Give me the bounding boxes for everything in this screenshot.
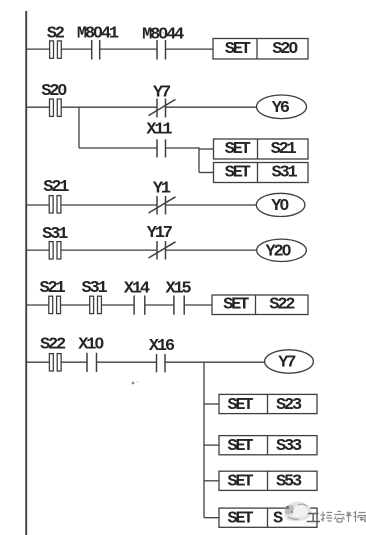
svg-text:X14: X14	[124, 280, 150, 299]
svg-text:SET: SET	[223, 296, 249, 315]
svg-text:Y1: Y1	[153, 180, 171, 199]
contact S21	[49, 196, 61, 213]
contact X14	[134, 296, 145, 315]
wire rung2 rail to S20	[26, 106, 50, 108]
wire M8044 to SET S20 box	[166, 48, 213, 50]
svg-text:SET: SET	[225, 163, 251, 182]
wire X14 to X15	[145, 304, 173, 306]
wire stub to SET S33	[204, 444, 219, 446]
branch wire down from rung2	[78, 107, 80, 148]
wire X11 to tee	[166, 147, 199, 149]
svg-text:S31: S31	[271, 163, 297, 182]
wire Y17 to coil Y20	[166, 249, 257, 251]
svg-text:S21: S21	[39, 279, 65, 298]
wire S20 to Y7 contact with branch node	[61, 106, 156, 108]
SET S21 instruction box	[214, 139, 309, 159]
svg-text:Y0: Y0	[271, 197, 289, 216]
SET S22 instruction box	[212, 295, 308, 315]
wire S21 to S31	[61, 304, 90, 306]
watermark icon	[285, 502, 312, 522]
contact X16	[157, 354, 166, 372]
wire stub to SET S63	[204, 517, 219, 519]
contact M8044	[157, 40, 166, 60]
contact X15	[174, 296, 184, 315]
svg-text:Y7: Y7	[278, 354, 296, 373]
svg-text:S2: S2	[47, 25, 65, 44]
svg-text:S53: S53	[276, 473, 302, 492]
coil Y0	[256, 193, 305, 216]
svg-text:X15: X15	[165, 280, 191, 299]
wire M8041 to M8044	[100, 48, 156, 50]
left power rail	[25, 11, 27, 535]
wire tee to SET S31	[199, 172, 214, 174]
wire S31 to X14	[101, 304, 133, 306]
contact X10	[87, 353, 97, 372]
svg-text:S20: S20	[41, 82, 67, 101]
wire Y7 to coil Y6	[166, 106, 257, 108]
svg-text:S21: S21	[43, 178, 69, 197]
contact Y1 normally closed	[149, 196, 176, 215]
contact Y17 normally closed	[149, 241, 176, 260]
SET S53 instruction box	[219, 471, 317, 492]
wire rung5 rail to S21	[26, 304, 49, 306]
svg-text:SET: SET	[225, 40, 251, 59]
contact S22	[49, 354, 61, 371]
contact Y7 normally closed	[149, 99, 176, 118]
wire branch to X11	[79, 147, 157, 149]
wire S31 to Y17	[61, 249, 157, 251]
wire X15 to SET S22 box	[185, 304, 212, 306]
contact S20	[50, 99, 62, 116]
svg-text:S22: S22	[40, 335, 66, 354]
contact S31 second	[90, 296, 102, 313]
svg-text:X10: X10	[78, 335, 104, 354]
contact S31	[49, 242, 61, 259]
svg-text:S31: S31	[42, 225, 68, 244]
SET S31 instruction box	[214, 163, 309, 183]
wire Y1 to coil Y0	[166, 204, 257, 206]
svg-text:SET: SET	[225, 140, 251, 159]
SET S23 instruction box	[219, 394, 317, 415]
svg-text:S33: S33	[276, 437, 302, 456]
svg-text:S21: S21	[271, 140, 297, 159]
watermark text gongkong ziliao	[307, 511, 366, 522]
svg-text:SET: SET	[227, 510, 253, 529]
svg-text:S31: S31	[81, 279, 107, 298]
wire S2 to M8041	[61, 48, 91, 50]
contact X11	[157, 139, 166, 157]
svg-text:Y7: Y7	[153, 83, 171, 102]
svg-text:X11: X11	[146, 120, 172, 139]
coil Y20	[257, 239, 307, 261]
wire rung6 rail to S22	[26, 361, 49, 363]
wire tee to SET S21	[199, 148, 214, 150]
wire S21 to Y1	[61, 204, 157, 206]
svg-text:S22: S22	[269, 296, 295, 315]
wire S22 to X10	[61, 361, 86, 363]
zero dot whiteout patches	[60, 31, 294, 345]
wire stub to SET S53	[204, 480, 219, 482]
svg-text:X16: X16	[149, 337, 175, 356]
contact S2	[50, 41, 62, 58]
svg-text:Y6: Y6	[272, 99, 290, 118]
svg-text:Y17: Y17	[147, 224, 173, 243]
svg-text:SET: SET	[227, 437, 253, 456]
wire rung4 rail to S31	[26, 249, 49, 251]
svg-text:SET: SET	[227, 473, 253, 492]
contact M8041	[92, 40, 100, 60]
stray dot	[132, 382, 135, 385]
SET S63 instruction box partially covered	[219, 508, 317, 528]
svg-text:S23: S23	[276, 396, 302, 415]
contact S21 second	[49, 296, 61, 313]
branch vertical wire down from rung6	[203, 362, 205, 518]
SET S33 instruction box	[219, 436, 317, 457]
tee vertical wire to SET boxes	[198, 147, 200, 172]
svg-text:SET: SET	[227, 396, 253, 415]
coil Y6	[257, 95, 307, 119]
wire X16 to coil Y7 with branch node	[166, 361, 265, 363]
wire rung1 rail to S2	[26, 48, 50, 50]
wire stub to SET S23	[204, 403, 219, 405]
SET S20 instruction box	[213, 39, 308, 60]
coil Y7	[265, 350, 314, 373]
wire rung3 rail to S21	[26, 204, 49, 206]
svg-text:S20: S20	[272, 40, 298, 59]
wire X10 to X16	[97, 361, 156, 363]
